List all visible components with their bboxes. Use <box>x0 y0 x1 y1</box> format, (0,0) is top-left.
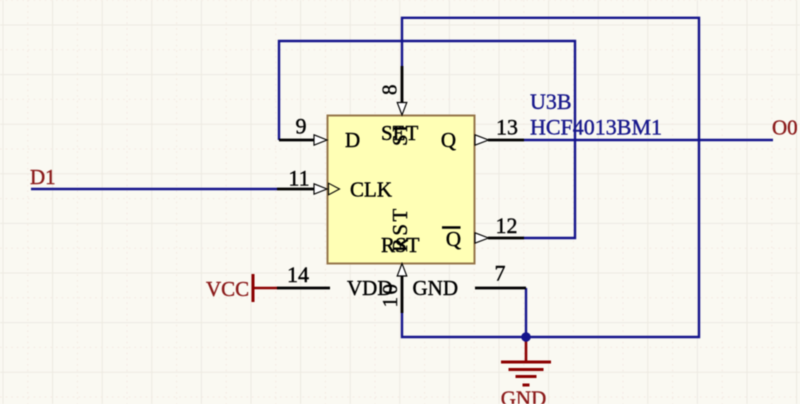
svg-text:RST: RST <box>381 233 420 257</box>
svg-text:CLK: CLK <box>350 178 392 202</box>
svg-text:Q: Q <box>446 227 461 251</box>
svg-text:HCF4013BM1: HCF4013BM1 <box>530 115 662 140</box>
svg-text:SET: SET <box>381 121 419 145</box>
svg-text:8: 8 <box>378 82 402 95</box>
svg-text:7: 7 <box>495 261 506 286</box>
svg-text:11: 11 <box>288 166 309 191</box>
svg-text:GND: GND <box>501 387 547 404</box>
svg-text:U3B: U3B <box>530 89 572 114</box>
svg-text:14: 14 <box>287 262 309 287</box>
svg-text:VCC: VCC <box>206 277 249 301</box>
svg-text:10: 10 <box>378 282 402 308</box>
svg-text:O0: O0 <box>772 116 798 140</box>
svg-text:13: 13 <box>496 115 518 140</box>
svg-text:D1: D1 <box>30 165 56 189</box>
svg-text:12: 12 <box>496 213 518 238</box>
svg-text:D: D <box>345 128 360 152</box>
svg-text:Q: Q <box>441 128 456 152</box>
svg-text:GND: GND <box>413 276 459 300</box>
svg-text:9: 9 <box>296 114 307 139</box>
